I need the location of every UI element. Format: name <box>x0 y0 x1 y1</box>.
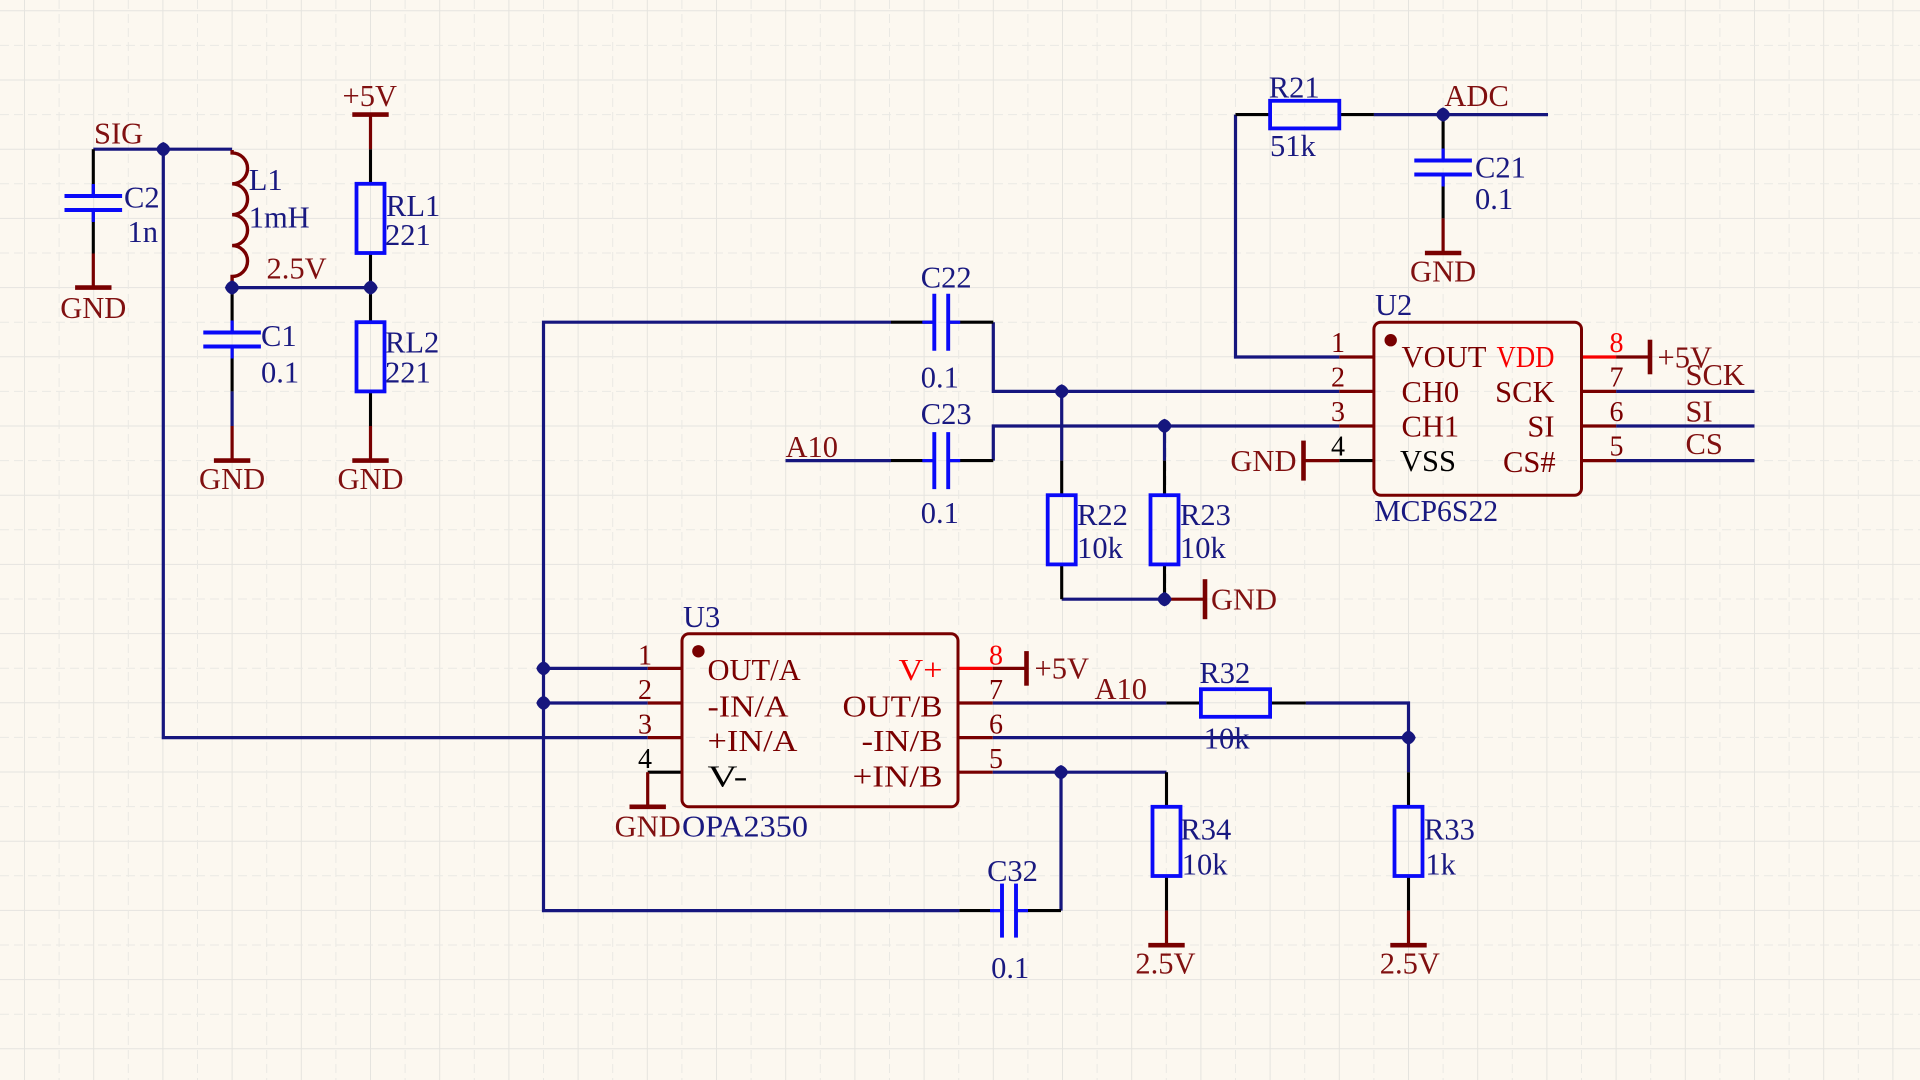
svg-text:1mH: 1mH <box>249 201 310 235</box>
svg-text:VOUT: VOUT <box>1402 340 1487 374</box>
svg-text:2: 2 <box>1331 362 1345 393</box>
svg-text:6: 6 <box>1610 397 1624 428</box>
svg-text:C23: C23 <box>921 397 972 431</box>
svg-text:CS#: CS# <box>1503 445 1556 479</box>
svg-text:3: 3 <box>638 710 652 741</box>
svg-text:C1: C1 <box>261 319 297 353</box>
svg-text:7: 7 <box>989 675 1003 706</box>
svg-text:OUT/A: OUT/A <box>708 653 801 687</box>
svg-text:10k: 10k <box>1182 848 1229 882</box>
svg-text:RL2: RL2 <box>385 326 439 360</box>
svg-text:4: 4 <box>1331 432 1345 463</box>
svg-text:+IN/B: +IN/B <box>853 760 943 794</box>
svg-text:2: 2 <box>638 675 652 706</box>
svg-text:GND: GND <box>60 291 126 325</box>
svg-text:4: 4 <box>638 744 652 775</box>
svg-text:SIG: SIG <box>94 117 143 151</box>
svg-text:CH0: CH0 <box>1402 375 1460 409</box>
svg-text:SI: SI <box>1527 410 1554 444</box>
svg-text:51k: 51k <box>1270 129 1317 163</box>
svg-text:GND: GND <box>337 462 403 496</box>
svg-text:SCK: SCK <box>1495 375 1554 409</box>
svg-text:C21: C21 <box>1475 151 1526 185</box>
svg-text:ADC: ADC <box>1444 79 1508 113</box>
svg-text:R22: R22 <box>1077 498 1128 532</box>
svg-text:U2: U2 <box>1375 288 1412 322</box>
svg-text:GND: GND <box>1410 254 1476 288</box>
svg-text:221: 221 <box>385 218 431 252</box>
svg-text:5: 5 <box>989 744 1003 775</box>
svg-text:GND: GND <box>1230 444 1296 478</box>
svg-text:+5V: +5V <box>1658 340 1712 374</box>
svg-text:R23: R23 <box>1180 498 1231 532</box>
svg-text:V-: V- <box>708 760 748 794</box>
svg-text:8: 8 <box>989 640 1003 671</box>
svg-text:V+: V+ <box>899 653 943 687</box>
svg-text:R33: R33 <box>1424 813 1475 847</box>
svg-text:2.5V: 2.5V <box>267 252 327 286</box>
svg-text:-IN/B: -IN/B <box>862 724 943 758</box>
svg-text:VDD: VDD <box>1497 340 1555 374</box>
svg-text:10k: 10k <box>1077 531 1124 565</box>
svg-text:8: 8 <box>1610 328 1624 359</box>
svg-text:OUT/B: OUT/B <box>843 690 943 724</box>
svg-text:0.1: 0.1 <box>921 361 959 395</box>
svg-text:+5V: +5V <box>1035 652 1089 686</box>
svg-text:GND: GND <box>615 810 681 844</box>
svg-text:-IN/A: -IN/A <box>708 690 789 724</box>
svg-text:2.5V: 2.5V <box>1135 947 1195 981</box>
svg-text:1: 1 <box>638 640 652 671</box>
svg-text:221: 221 <box>385 356 431 390</box>
svg-text:VSS: VSS <box>1400 444 1456 478</box>
svg-text:1n: 1n <box>128 215 159 249</box>
svg-text:0.1: 0.1 <box>991 951 1029 985</box>
svg-text:6: 6 <box>989 710 1003 741</box>
svg-text:SI: SI <box>1686 395 1713 429</box>
svg-text:3: 3 <box>1331 397 1345 428</box>
svg-text:1k: 1k <box>1425 848 1456 882</box>
svg-text:10k: 10k <box>1204 722 1251 756</box>
svg-text:5: 5 <box>1610 432 1624 463</box>
svg-text:10k: 10k <box>1180 531 1227 565</box>
svg-text:2.5V: 2.5V <box>1380 947 1440 981</box>
svg-text:C32: C32 <box>987 854 1038 888</box>
svg-text:U3: U3 <box>683 600 720 634</box>
svg-text:R21: R21 <box>1269 71 1320 105</box>
svg-text:0.1: 0.1 <box>1475 182 1513 216</box>
svg-text:OPA2350: OPA2350 <box>682 810 808 844</box>
svg-text:R32: R32 <box>1199 656 1250 690</box>
svg-text:A10: A10 <box>1095 672 1148 706</box>
svg-text:+5V: +5V <box>343 79 397 113</box>
svg-text:7: 7 <box>1610 362 1624 393</box>
svg-text:1: 1 <box>1331 328 1345 359</box>
svg-text:L1: L1 <box>249 163 283 197</box>
svg-text:0.1: 0.1 <box>921 496 959 530</box>
svg-text:R34: R34 <box>1180 813 1231 847</box>
svg-text:C22: C22 <box>921 261 972 295</box>
svg-text:A10: A10 <box>786 430 839 464</box>
svg-text:CH1: CH1 <box>1402 410 1460 444</box>
svg-text:+IN/A: +IN/A <box>708 724 798 758</box>
svg-text:0.1: 0.1 <box>261 356 299 390</box>
svg-text:GND: GND <box>1211 583 1277 617</box>
svg-text:MCP6S22: MCP6S22 <box>1374 494 1498 528</box>
svg-text:GND: GND <box>199 462 265 496</box>
svg-text:CS: CS <box>1686 427 1723 461</box>
svg-text:C2: C2 <box>124 181 160 215</box>
